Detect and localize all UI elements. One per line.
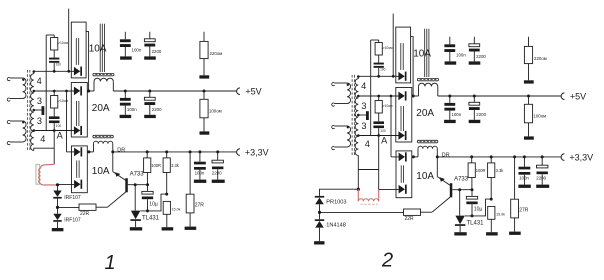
transistor A733 collector wire C1 bbox=[108, 192, 126, 207]
transistor A733 emitter wire C1 bbox=[112, 152, 114, 172]
ground 2200 top C2 bbox=[469, 61, 481, 64]
ground 100n +3.3V C1 bbox=[194, 180, 206, 183]
phase dot primary 1 C1 bbox=[22, 79, 24, 81]
capacitor 100 snubber1 C1 bbox=[53, 50, 55, 58]
bus wire rail2 to D3 top C2 bbox=[390, 95, 393, 98]
node 100om C1 bbox=[203, 90, 206, 93]
capacitor 100 snubber2 C2 bbox=[378, 113, 380, 121]
capacitor 2200 top row C2 bbox=[473, 37, 475, 44]
svg-text:3: 3 bbox=[37, 116, 42, 126]
svg-text:100R: 100R bbox=[151, 163, 161, 168]
svg-text:DR: DR bbox=[442, 152, 450, 158]
wire line A down to magamp C2 bbox=[378, 136, 380, 190]
svg-text:10A: 10A bbox=[416, 171, 434, 182]
svg-text:+5V: +5V bbox=[570, 91, 586, 101]
node snubber2-bottom on line A C2 bbox=[377, 134, 380, 137]
resistor 10om snubber2 C1 bbox=[53, 91, 55, 96]
ground 100om C1 bbox=[200, 131, 210, 134]
svg-text:TL431: TL431 bbox=[142, 216, 160, 222]
svg-text:2200: 2200 bbox=[152, 49, 162, 54]
transistor A733 base bar C2 bbox=[450, 183, 453, 197]
svg-text:+5V: +5V bbox=[245, 86, 261, 96]
svg-text:3: 3 bbox=[361, 101, 366, 111]
wire +5V tap line C2 bbox=[358, 95, 398, 97]
rectifier diode block D1 10A C1 bbox=[71, 22, 86, 78]
node base-100R C1 bbox=[146, 183, 149, 186]
svg-text:+3,3V: +3,3V bbox=[569, 152, 593, 162]
svg-text:10ом: 10ом bbox=[60, 41, 69, 45]
resistor 100om C1 bbox=[203, 91, 205, 99]
ground 27R C1 bbox=[185, 227, 197, 230]
wire +3.3V rail C2 bbox=[412, 156, 418, 158]
wire +3.3V rail C1 bbox=[87, 151, 93, 153]
rectifier diode block D1 10A C2 bbox=[396, 27, 411, 83]
svg-text:22R: 22R bbox=[80, 211, 90, 217]
transformer T1-C2 core bbox=[351, 75, 353, 156]
svg-text:10A: 10A bbox=[92, 166, 110, 177]
svg-text:4: 4 bbox=[361, 81, 366, 91]
node top tap C1 bbox=[33, 70, 36, 73]
svg-text:20A: 20A bbox=[92, 103, 110, 114]
wire base line C1 bbox=[128, 184, 149, 186]
ground 100n +5V C2 bbox=[444, 120, 456, 123]
phase dot primary 1 C2 bbox=[347, 84, 349, 86]
shunt regulator TL431 C1 bbox=[134, 185, 136, 211]
capacitor 100n +3.3V C2 bbox=[523, 157, 525, 167]
magamp winding red C1 bbox=[41, 164, 55, 168]
resistor 100R C2 bbox=[471, 157, 473, 163]
resistor 27R C1 bbox=[189, 152, 191, 194]
wire magamp to D3 C2 bbox=[379, 188, 399, 190]
diode IRF107 upper C1 bbox=[57, 186, 59, 190]
node 27R rail C1 bbox=[189, 150, 192, 153]
wire 22R to collector C2 bbox=[421, 211, 433, 213]
resistor 22R C2 bbox=[404, 209, 421, 215]
node divider C2 bbox=[490, 198, 493, 201]
choke winding +3.3V DR C1 bbox=[94, 141, 113, 143]
resistor 10om snubber2 C2 bbox=[378, 96, 380, 101]
svg-text:2200: 2200 bbox=[152, 107, 162, 112]
phase dot primary 2 C2 bbox=[347, 126, 349, 128]
choke core bar lower C2 bbox=[417, 140, 437, 143]
magamp core dashed C2 bbox=[360, 203, 377, 205]
resistor 100R C1 bbox=[146, 152, 148, 158]
resistor 100om C2 bbox=[528, 96, 530, 104]
wire line A to magamp C1 bbox=[53, 131, 55, 165]
node IRF107 junction C1 bbox=[56, 206, 59, 209]
resistor 15.0k C2 bbox=[488, 206, 495, 219]
transformer T1-C2 primary winding 1 bbox=[335, 82, 348, 84]
terminal +3.3V C1 bbox=[237, 149, 240, 156]
node base-100R C2 bbox=[471, 188, 474, 191]
center tap wire and bar C1 bbox=[34, 109, 42, 111]
diode 1N4148 C2 bbox=[319, 212, 321, 219]
node top tap C2 bbox=[357, 75, 360, 78]
transistor A733 emitter arrow C2 bbox=[440, 177, 445, 182]
svg-text:A733: A733 bbox=[454, 176, 469, 182]
resistor 22R C1 bbox=[79, 204, 96, 210]
svg-text:100n: 100n bbox=[451, 112, 461, 117]
diode PR1003 C2 bbox=[315, 196, 324, 198]
capacitor 2200 +5V C1 bbox=[149, 91, 151, 97]
node ref-10u C2 bbox=[471, 214, 474, 217]
ground 100n +5V C1 bbox=[120, 115, 132, 118]
node 3.3k rail C1 bbox=[165, 150, 168, 153]
svg-text:10ом: 10ом bbox=[385, 46, 394, 50]
wire TL431 ref C2 bbox=[465, 199, 491, 216]
node D3 output C2 bbox=[412, 155, 415, 158]
svg-text:27R: 27R bbox=[195, 203, 205, 209]
transformer T1-C1 primary winding 1 bbox=[10, 77, 23, 79]
node base-TL431 C1 bbox=[134, 183, 137, 186]
capacitor 2200 top row C1 bbox=[149, 32, 151, 39]
node divider C1 bbox=[165, 193, 168, 196]
choke core bar upper C2 bbox=[417, 78, 438, 80]
svg-text:10µ: 10µ bbox=[474, 206, 483, 212]
wire magamp to D3 C1 bbox=[58, 183, 75, 185]
ground 2200 +5V C1 bbox=[144, 115, 156, 118]
ground 2200 top C1 bbox=[144, 56, 156, 59]
snubber R-C upper leg wire C1 bbox=[45, 35, 47, 131]
ground IRF107 C1 bbox=[52, 228, 64, 231]
ground 100n top C2 bbox=[445, 61, 457, 64]
capacitor 100n +5V C1 bbox=[124, 91, 126, 98]
svg-text:IRF107: IRF107 bbox=[64, 218, 81, 224]
capacitor 100n +5V C2 bbox=[449, 96, 451, 103]
node D1-output C2 bbox=[412, 95, 415, 98]
svg-text:DR: DR bbox=[117, 147, 125, 153]
svg-text:PR1003: PR1003 bbox=[326, 199, 346, 205]
node 2200 +5V C1 bbox=[148, 90, 151, 93]
rectifier diode block D2 20A C1 bbox=[71, 83, 87, 138]
svg-text:22R: 22R bbox=[405, 216, 415, 222]
diode IRF107 lower C1 bbox=[57, 207, 59, 213]
wire top tap line C1 bbox=[33, 71, 35, 73]
wire node-A line C2 bbox=[358, 135, 398, 137]
capacitor 10u C1 bbox=[147, 185, 149, 192]
node snubber1-line C1 bbox=[53, 70, 56, 73]
node 100om C2 bbox=[527, 95, 530, 98]
svg-text:4: 4 bbox=[365, 139, 370, 149]
svg-text:4: 4 bbox=[37, 76, 42, 86]
node D1-output C1 bbox=[87, 90, 90, 93]
svg-text:2200: 2200 bbox=[476, 112, 486, 117]
svg-text:100: 100 bbox=[380, 68, 386, 72]
svg-text:3: 3 bbox=[361, 121, 366, 131]
node 27R rail C2 bbox=[513, 155, 516, 158]
svg-text:+3,3V: +3,3V bbox=[245, 147, 269, 157]
node 100R rail C2 bbox=[470, 155, 473, 158]
transformer T1-C1 secondary winding 4-3-3-4 bbox=[31, 74, 34, 151]
node snubber1-line C2 bbox=[377, 75, 380, 78]
svg-text:10µ: 10µ bbox=[149, 201, 158, 207]
wire D1 output loop C2 bbox=[411, 37, 414, 96]
ground 220om C2 bbox=[524, 80, 534, 83]
node 3.3k rail C2 bbox=[490, 155, 493, 158]
svg-text:20A: 20A bbox=[416, 108, 434, 119]
capacitor 10u C2 bbox=[471, 190, 473, 197]
capacitor 100n top row C2 bbox=[449, 37, 451, 45]
choke core bar lower C1 bbox=[93, 135, 113, 138]
node snubber2-top C1 bbox=[53, 90, 56, 93]
node bus-D1 C1 bbox=[67, 70, 70, 73]
secondary tap dots C2 bbox=[357, 95, 360, 98]
wire +5V rail C2 bbox=[412, 95, 419, 97]
ground 1N4148 C2 bbox=[314, 241, 324, 244]
wire secondary bottom tap C1 bbox=[34, 148, 54, 150]
terminal +5V C2 bbox=[561, 93, 564, 100]
wire TL431 ref C1 bbox=[140, 194, 166, 211]
resistor 220om top C1 bbox=[203, 32, 205, 42]
svg-text:3: 3 bbox=[37, 96, 42, 106]
ground TL431 C2 bbox=[454, 232, 466, 235]
ground 100om C2 bbox=[524, 136, 534, 139]
node snubber2-bottom on line A C1 bbox=[53, 129, 56, 132]
ground 2200 +3.3V C2 bbox=[536, 185, 549, 188]
resistor 15.0k C1 bbox=[163, 201, 170, 214]
transistor A733 collector wire C2 bbox=[432, 197, 450, 212]
node D3 output C1 bbox=[87, 150, 90, 153]
node PR-1N4148 junction C2 bbox=[318, 211, 321, 214]
resistor 27R C2 bbox=[514, 157, 516, 199]
svg-text:100n: 100n bbox=[127, 107, 137, 112]
bus wire rail2 to D3 top C1 bbox=[65, 90, 68, 93]
node DR-emitter C2 bbox=[436, 155, 439, 158]
svg-text:100n: 100n bbox=[519, 175, 529, 180]
svg-text:100n: 100n bbox=[195, 170, 205, 175]
terminal +3.3V C2 bbox=[561, 154, 564, 161]
node ref-10u C1 bbox=[146, 209, 149, 212]
node 2200 +5V C2 bbox=[473, 95, 476, 98]
wire 22R left lead C1 bbox=[58, 206, 80, 208]
transformer T1-C2 primary winding 2 bbox=[335, 125, 348, 127]
capacitor 2200 +3.3V C2 bbox=[541, 157, 543, 165]
wire +5V rail C1 bbox=[87, 90, 94, 92]
svg-text:100ом: 100ом bbox=[209, 108, 222, 113]
wire top tap line C2 bbox=[357, 76, 359, 78]
rectifier diode block D2 20A C2 bbox=[396, 88, 412, 143]
capacitor 100n top row C1 bbox=[124, 32, 126, 40]
shunt regulator TL431 C2 bbox=[459, 190, 461, 216]
bus wire to rectifier D1 C1 bbox=[68, 9, 70, 72]
node 2200 +3.3V C2 bbox=[541, 155, 544, 158]
resistor 10om snubber1 C1 bbox=[53, 35, 55, 38]
svg-text:220ом: 220ом bbox=[210, 51, 223, 56]
choke extra winding lines C2 bbox=[424, 29, 426, 77]
wire to PR1003 C2 bbox=[320, 189, 359, 196]
svg-text:100: 100 bbox=[56, 124, 62, 128]
wire D1 output loop C1 bbox=[86, 32, 89, 91]
node 2200 +3.3V C1 bbox=[216, 150, 219, 153]
wire node-A line C1 bbox=[34, 130, 74, 132]
node magamp left C2 bbox=[357, 188, 360, 191]
wire +5V tap line C1 bbox=[34, 90, 74, 92]
wire secondary bottom tap C2 bbox=[357, 156, 359, 190]
svg-text:100n: 100n bbox=[132, 48, 142, 53]
svg-text:10ом: 10ом bbox=[60, 99, 69, 103]
snubber R-C upper leg wire C2 bbox=[370, 40, 372, 136]
svg-text:3.3k: 3.3k bbox=[496, 168, 505, 173]
node base-TL431 C2 bbox=[458, 188, 461, 191]
rectifier diode block D3 10A C1 bbox=[72, 146, 88, 193]
transistor A733 emitter wire C2 bbox=[436, 157, 438, 177]
node snubber2-top C2 bbox=[377, 95, 380, 98]
resistor 220om top C2 bbox=[528, 37, 530, 47]
magamp winding red C2 bbox=[357, 189, 359, 201]
transistor A733 base bar C1 bbox=[125, 178, 128, 192]
svg-text:2200: 2200 bbox=[536, 175, 546, 180]
svg-text:A: A bbox=[381, 135, 388, 145]
capacitor 100 snubber2 C1 bbox=[53, 108, 55, 116]
svg-text:2: 2 bbox=[381, 249, 393, 271]
ground 220om C1 bbox=[199, 75, 209, 78]
capacitor 100 snubber1 C2 bbox=[378, 55, 380, 63]
wire 22R left lead C2 bbox=[320, 211, 404, 213]
svg-text:IRF107: IRF107 bbox=[64, 195, 81, 201]
svg-text:15.0k: 15.0k bbox=[172, 207, 181, 211]
node magamp-D3 C1 bbox=[56, 183, 59, 186]
svg-text:220ом: 220ом bbox=[534, 56, 547, 61]
wire base line C2 bbox=[452, 189, 473, 191]
svg-text:100: 100 bbox=[380, 129, 386, 133]
svg-text:3.3k: 3.3k bbox=[171, 163, 180, 168]
node 100n +3.3V C2 bbox=[523, 155, 526, 158]
svg-text:TL431: TL431 bbox=[467, 221, 485, 227]
ground 2200 +3.3V C1 bbox=[212, 180, 225, 183]
bus wire to rectifier D1 C2 bbox=[392, 14, 394, 77]
secondary tap dots C1 bbox=[33, 90, 36, 93]
node 100R rail C1 bbox=[146, 150, 149, 153]
svg-text:1N4148: 1N4148 bbox=[326, 223, 346, 229]
ground 27R C2 bbox=[509, 232, 521, 235]
ground 100n top C1 bbox=[120, 56, 132, 59]
choke extra winding lines C1 bbox=[99, 24, 101, 72]
capacitor 2200 +5V C2 bbox=[473, 96, 475, 102]
transformer T1-C2 secondary winding 4-3-3-4 bbox=[355, 79, 358, 156]
ground 15.0k C2 bbox=[486, 232, 498, 235]
ground 15.0k C1 bbox=[162, 227, 174, 230]
svg-text:27R: 27R bbox=[519, 208, 529, 214]
svg-text:100n: 100n bbox=[456, 53, 466, 58]
svg-text:A: A bbox=[57, 130, 64, 140]
svg-text:2200: 2200 bbox=[212, 170, 222, 175]
resistor 3.3k C1 bbox=[166, 152, 168, 158]
transistor A733 emitter arrow C1 bbox=[115, 172, 120, 177]
svg-text:2200: 2200 bbox=[476, 54, 486, 59]
svg-text:4: 4 bbox=[40, 134, 45, 144]
capacitor 2200 +3.3V C1 bbox=[217, 152, 219, 160]
magamp core bar C1 bbox=[36, 164, 40, 184]
node bus-D1 C2 bbox=[392, 75, 395, 78]
svg-text:100: 100 bbox=[56, 63, 62, 67]
choke winding +5V C1 bbox=[94, 78, 113, 81]
transformer T1-C1 primary winding 2 bbox=[10, 120, 23, 122]
rectifier diode block D3 10A C2 bbox=[396, 151, 412, 198]
transformer T1-C1 core bbox=[27, 70, 29, 151]
svg-text:100ом: 100ом bbox=[533, 113, 546, 118]
node 100n +5V C1 bbox=[124, 90, 127, 93]
choke winding +3.3V DR C2 bbox=[418, 146, 437, 148]
svg-text:10ом: 10ом bbox=[385, 104, 394, 108]
ground 2200 +5V C2 bbox=[469, 120, 481, 123]
choke winding +5V C2 bbox=[419, 83, 438, 86]
node 100n +5V C2 bbox=[448, 95, 451, 98]
capacitor 100n +3.3V C1 bbox=[199, 152, 201, 162]
phase dot primary 2 C1 bbox=[22, 121, 24, 123]
wire 22R to collector C1 bbox=[96, 206, 108, 208]
ground TL431 C1 bbox=[130, 227, 142, 230]
node 100n +3.3V C1 bbox=[198, 150, 201, 153]
ground 100n +3.3V C2 bbox=[518, 185, 530, 188]
svg-text:A733: A733 bbox=[130, 171, 145, 177]
resistor 10om snubber1 C2 bbox=[378, 40, 380, 43]
svg-text:15.0k: 15.0k bbox=[496, 212, 505, 216]
svg-text:100R: 100R bbox=[476, 168, 486, 173]
resistor 3.3k C2 bbox=[490, 157, 492, 163]
terminal +5V C1 bbox=[237, 88, 240, 95]
choke core bar upper C1 bbox=[93, 73, 114, 75]
node DR-emitter C1 bbox=[111, 150, 114, 153]
svg-text:1: 1 bbox=[105, 252, 116, 274]
center tap wire and bar C2 bbox=[358, 114, 366, 116]
